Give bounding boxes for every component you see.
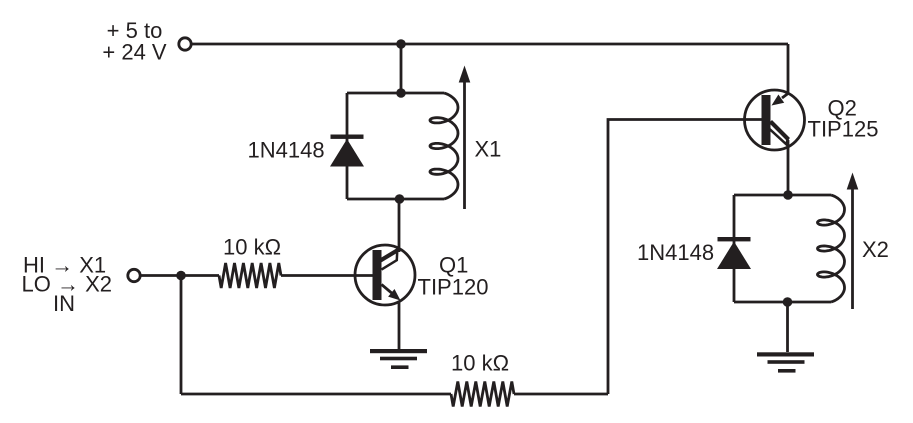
wire Q1 emitter: [398, 301, 401, 350]
svg-text:TIP120: TIP120: [418, 275, 489, 300]
inductor/relay coil X2: [818, 195, 845, 302]
svg-text:1N4148: 1N4148: [248, 138, 325, 163]
wire X2 left branch: [733, 195, 736, 302]
wire X1 bottom: [347, 198, 444, 201]
transistor Q2 circle: [745, 90, 805, 150]
ground (X2): [757, 352, 814, 356]
svg-text:1N4148: 1N4148: [637, 240, 714, 265]
svg-text:10 kΩ: 10 kΩ: [451, 351, 509, 376]
resistor R1 10 k&#937;: [219, 263, 281, 288]
wire top rail: [191, 43, 788, 46]
node X2 bottom: [783, 297, 793, 307]
transistor Q1 collector stroke: [381, 249, 400, 261]
diode D1 1N4148 (anode triangle): [330, 139, 364, 167]
wire input: [140, 274, 219, 277]
node X1 top: [396, 88, 406, 98]
power terminal: [179, 38, 191, 50]
wire bottom run: [181, 393, 451, 396]
transistor Q2 base bar: [762, 95, 771, 145]
arrow X1 (actuation): [463, 78, 466, 209]
wire R2 to riser: [514, 393, 608, 396]
wire X1 top: [347, 92, 444, 95]
node input junction: [176, 271, 186, 281]
transistor Q1 darlington stroke: [382, 250, 398, 270]
diode D2 1N4148 (cathode bar): [718, 237, 751, 241]
node X1 bottom: [395, 194, 405, 204]
arrow X2 (actuation): [851, 185, 854, 309]
svg-text:X1: X1: [475, 137, 502, 162]
wire R1 to Q1 base: [281, 274, 373, 277]
svg-text:10 kΩ: 10 kΩ: [223, 235, 281, 260]
wire Q1 collector: [398, 199, 401, 252]
transistor Q2 darlington stroke: [767, 127, 788, 145]
resistor R2 10 k&#937;: [451, 382, 514, 407]
wire riser to Q2 base: [608, 120, 762, 395]
transistor Q2 collector stroke: [771, 122, 789, 140]
wire X2 top: [734, 194, 831, 197]
wire X2 to ground: [786, 302, 789, 352]
inductor/relay coil X1: [430, 93, 458, 199]
diode D1 1N4148 (cathode bar): [331, 135, 364, 139]
node X1 top rail junction: [396, 39, 406, 49]
svg-text:IN: IN: [53, 291, 75, 316]
wire Q2 emitter (from rail): [787, 44, 790, 94]
node X2 top: [783, 190, 793, 200]
wire Q2 collector: [787, 140, 790, 195]
diode D2 1N4148 (anode triangle): [717, 242, 751, 270]
wire X2 bottom: [734, 301, 831, 304]
svg-text:+ 24 V: + 24 V: [102, 40, 167, 65]
input terminal: [128, 269, 140, 281]
wire input junction down: [180, 276, 183, 395]
svg-text:X2: X2: [862, 237, 889, 262]
wire rail to X1: [400, 44, 403, 93]
transistor Q1 circle: [355, 245, 415, 305]
wire X1 left branch: [346, 93, 349, 199]
svg-text:TIP125: TIP125: [808, 117, 879, 142]
transistor Q1 emitter: [382, 285, 395, 296]
transistor Q2 emitter arrow: [782, 94, 788, 99]
ground (Q1 emitter): [370, 349, 427, 353]
transistor Q1 base bar: [373, 250, 382, 300]
